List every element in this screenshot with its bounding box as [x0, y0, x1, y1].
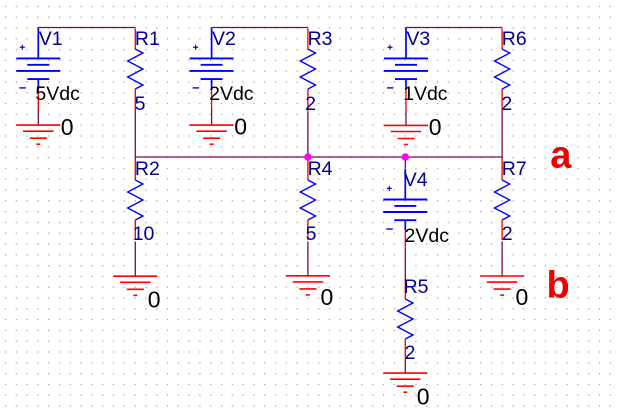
svg-text:0: 0 — [148, 286, 161, 312]
ground symbol 0 under V1 — [16, 125, 60, 144]
wire bus to R4 top — [307, 157, 309, 159]
svg-text:V1: V1 — [39, 28, 63, 50]
wire R4 bottom to ground — [307, 242, 309, 276]
ground symbol 0 under R4 — [286, 276, 330, 295]
svg-text:0: 0 — [321, 284, 334, 310]
svg-text:R2: R2 — [135, 158, 160, 180]
svg-text:0: 0 — [516, 284, 529, 310]
R3 value label 2 — [305, 93, 316, 115]
wire bus to V4 top — [404, 157, 406, 168]
R6 reference label — [502, 28, 527, 50]
R3 reference label — [308, 28, 333, 50]
svg-text:0: 0 — [429, 114, 442, 140]
R2 value label 10 — [133, 223, 155, 245]
wire V2 to ground — [211, 109, 213, 125]
svg-text:a: a — [550, 135, 572, 177]
wire bus to R7 top — [501, 157, 503, 159]
resistor R1 — [128, 29, 143, 110]
resistor R6 — [495, 29, 510, 110]
resistor R3 — [300, 29, 315, 110]
wire V4 bottom to R5 top — [404, 249, 406, 280]
V1 reference label — [39, 28, 63, 50]
svg-text:0: 0 — [234, 114, 247, 140]
ground net label 0 (R5) — [417, 383, 430, 409]
svg-text:R3: R3 — [308, 28, 333, 50]
ground symbol 0 under V2 — [190, 125, 234, 144]
wire V1 to ground — [37, 109, 39, 125]
resistor R2 — [128, 159, 143, 241]
V1 value label 5Vdc — [35, 83, 80, 105]
ground net label 0 (R4) — [321, 284, 334, 310]
wire top rail V2-R3 — [212, 27, 308, 29]
svg-text:2: 2 — [305, 93, 316, 115]
R5 reference label — [404, 276, 429, 298]
svg-text:2Vdc: 2Vdc — [209, 83, 254, 105]
svg-text:R1: R1 — [135, 28, 160, 50]
wire R5 bottom to ground — [404, 361, 406, 373]
R2 reference label — [135, 158, 160, 180]
svg-text:0: 0 — [417, 383, 430, 409]
svg-text:5: 5 — [135, 93, 146, 115]
ground net label 0 (V1) — [61, 114, 74, 140]
ground symbol 0 under V3 — [384, 125, 428, 144]
wire top rail V1-R1 — [38, 27, 135, 29]
wire R1 bottom to bus — [134, 110, 136, 158]
R5 value label 2 — [405, 342, 416, 364]
svg-text:R7: R7 — [502, 158, 527, 180]
ground net label 0 (R2) — [148, 286, 161, 312]
R7 value label 2 — [502, 223, 513, 245]
ground net label 0 (V2) — [234, 114, 247, 140]
wire R3 bottom to bus — [307, 111, 309, 158]
V4 value label 2Vdc — [405, 225, 450, 247]
svg-text:2Vdc: 2Vdc — [405, 225, 450, 247]
svg-text:1Vdc: 1Vdc — [403, 83, 448, 105]
voltage source V3 — [384, 28, 428, 110]
svg-text:R4: R4 — [308, 158, 333, 180]
svg-text:2: 2 — [501, 93, 512, 115]
svg-text:10: 10 — [133, 223, 155, 245]
ground symbol 0 under R5 — [383, 373, 427, 392]
resistor R7 — [495, 159, 510, 241]
R6 value label 2 — [501, 93, 512, 115]
wire top rail V3-R6 — [406, 27, 502, 29]
V3 reference label — [406, 28, 430, 50]
node b label — [547, 265, 570, 307]
svg-text:V3: V3 — [406, 28, 430, 50]
V3 value label 1Vdc — [403, 83, 448, 105]
wire bus to R2 top — [134, 157, 136, 159]
R4 reference label — [308, 158, 333, 180]
svg-text:2: 2 — [502, 223, 513, 245]
V4 reference label — [404, 169, 428, 191]
voltage source V2 — [190, 28, 234, 110]
junction dot on bus at V3/V4 column — [402, 153, 409, 160]
svg-text:V2: V2 — [212, 28, 236, 50]
R4 value label 5 — [306, 223, 317, 245]
svg-text:R5: R5 — [404, 276, 429, 298]
ground symbol 0 under R7 — [480, 276, 524, 295]
wire R6 bottom to bus — [501, 110, 503, 158]
ground symbol 0 under R2 — [113, 276, 157, 295]
R1 reference label — [135, 28, 160, 50]
wire V3 to ground — [405, 109, 407, 125]
svg-text:0: 0 — [61, 114, 74, 140]
resistor R4 — [300, 159, 315, 241]
svg-text:b: b — [547, 265, 570, 307]
R7 reference label — [502, 158, 527, 180]
junction dot on bus at R3/R4 column — [304, 153, 311, 160]
voltage source V1 — [16, 28, 60, 110]
wire middle bus node a row — [135, 156, 502, 158]
svg-text:V4: V4 — [404, 169, 428, 191]
svg-text:2: 2 — [405, 342, 416, 364]
svg-text:5Vdc: 5Vdc — [35, 83, 80, 105]
R1 value label 5 — [135, 93, 146, 115]
voltage source V4 — [383, 169, 427, 251]
V2 reference label — [212, 28, 236, 50]
node a label — [550, 135, 572, 177]
ground net label 0 (V3) — [429, 114, 442, 140]
svg-text:R6: R6 — [502, 28, 527, 50]
resistor R5 — [398, 279, 413, 361]
wire R2 bottom to ground — [134, 242, 136, 277]
V2 value label 2Vdc — [209, 83, 254, 105]
wire R7 bottom to ground — [501, 242, 503, 277]
svg-text:5: 5 — [306, 223, 317, 245]
ground net label 0 (R7) — [516, 284, 529, 310]
